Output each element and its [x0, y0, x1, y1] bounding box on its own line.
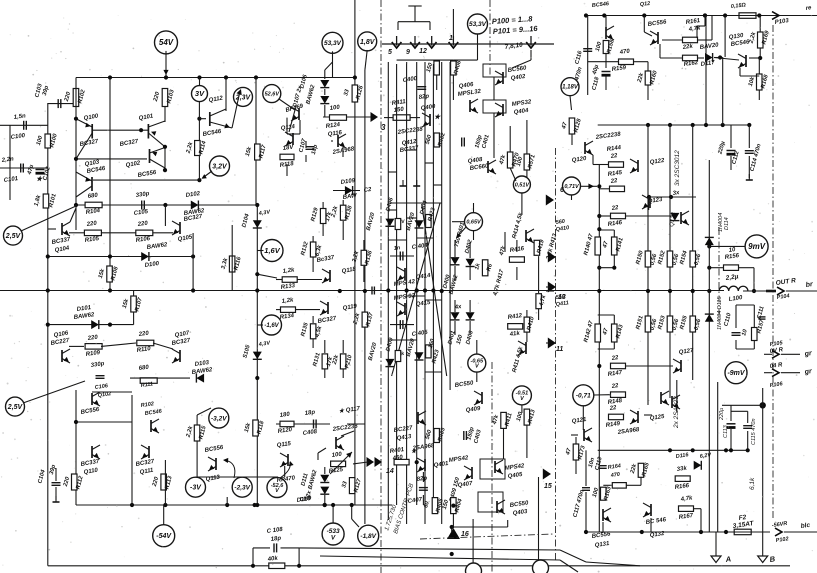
svg-text:blc: blc	[800, 522, 811, 530]
svg-text:C115 470n: C115 470n	[751, 418, 757, 445]
svg-text:1: 1	[449, 35, 453, 42]
svg-text:15: 15	[544, 483, 552, 490]
svg-text:-0,71: -0,71	[576, 393, 591, 400]
svg-text:22: 22	[610, 205, 619, 212]
svg-text:C113: C113	[723, 424, 729, 438]
svg-text:C2: C2	[363, 187, 372, 194]
svg-text:6,1k: 6,1k	[749, 477, 756, 490]
svg-text:22: 22	[610, 383, 619, 390]
svg-text:53,3V: 53,3V	[324, 40, 342, 47]
svg-text:53,3V: 53,3V	[469, 21, 487, 28]
svg-text:22: 22	[609, 153, 618, 160]
svg-text:9mV: 9mV	[748, 242, 766, 251]
svg-text:5: 5	[388, 49, 392, 56]
svg-text:-1,6V: -1,6V	[264, 323, 279, 329]
svg-text:14: 14	[386, 468, 394, 475]
svg-text:A: A	[724, 554, 732, 564]
svg-text:9: 9	[406, 49, 410, 56]
svg-text:-1,8V: -1,8V	[360, 533, 376, 540]
svg-text:6: 6	[560, 187, 564, 194]
svg-text:220µ: 220µ	[719, 408, 725, 421]
svg-text:3: 3	[381, 123, 386, 132]
svg-text:D114: D114	[724, 217, 730, 230]
svg-text:-54V: -54V	[156, 533, 172, 540]
svg-text:3V: 3V	[195, 89, 205, 98]
svg-text:1,18V: 1,18V	[562, 85, 579, 91]
svg-text:22: 22	[609, 178, 618, 185]
svg-text:0,65V: 0,65V	[466, 220, 482, 226]
svg-text:0,71V: 0,71V	[564, 184, 580, 190]
svg-text:0,51V: 0,51V	[515, 182, 531, 188]
svg-text:22: 22	[608, 405, 617, 412]
svg-text:1,6V: 1,6V	[264, 246, 280, 255]
svg-text:-2,3V: -2,3V	[234, 484, 250, 491]
svg-text:54V: 54V	[159, 38, 174, 47]
svg-text:V: V	[331, 534, 336, 541]
svg-text:2,5V: 2,5V	[7, 404, 24, 411]
svg-text:12: 12	[419, 48, 427, 55]
svg-text:1N4004 D115: 1N4004 D115	[717, 296, 723, 330]
svg-text:-3V: -3V	[190, 485, 202, 492]
svg-text:2,5V: 2,5V	[5, 233, 22, 240]
svg-text:3,2V: 3,2V	[212, 163, 228, 170]
svg-text:22: 22	[610, 355, 619, 362]
svg-text:-9mV: -9mV	[727, 370, 745, 377]
svg-text:52,6V: 52,6V	[265, 92, 281, 98]
svg-text:2,3V: 2,3V	[235, 94, 252, 101]
svg-text:-3,2V: -3,2V	[211, 415, 227, 422]
svg-text:11: 11	[556, 346, 563, 353]
svg-text:Q12: Q12	[640, 1, 651, 8]
